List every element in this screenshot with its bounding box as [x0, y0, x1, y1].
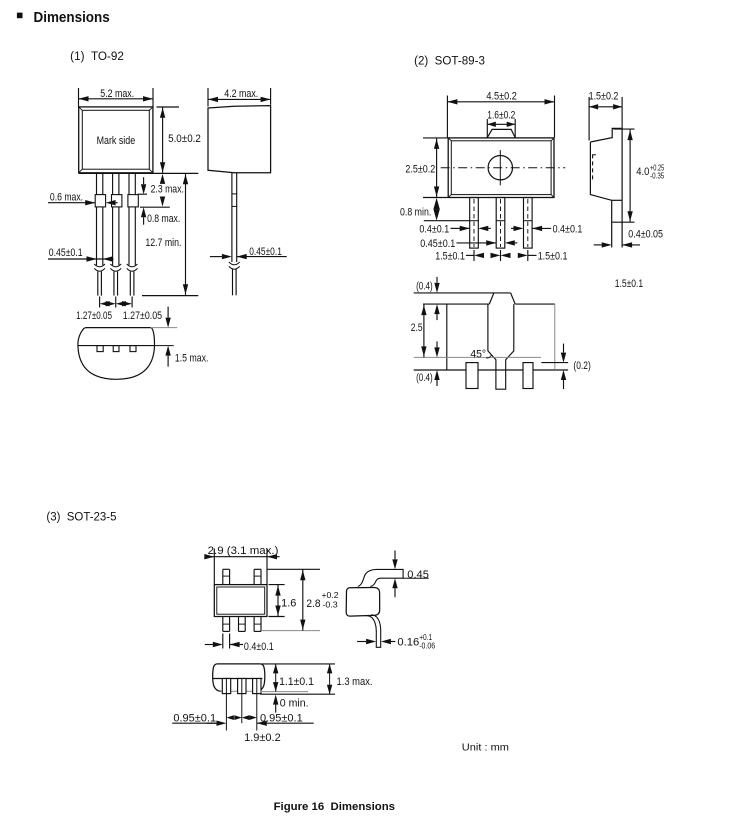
- svg-text:1.9±0.2: 1.9±0.2: [244, 732, 281, 744]
- SOT-23 front view parting line: [212, 678, 262, 680]
- svg-text:0.4±0.1: 0.4±0.1: [244, 641, 274, 653]
- SOT-23 front lead 1: [222, 679, 230, 694]
- collar top extension line: [138, 193, 147, 195]
- svg-text:0.8 min.: 0.8 min.: [400, 207, 431, 219]
- dimension 2.5±0.2 line: [436, 138, 438, 198]
- rear view tab sides: [488, 304, 514, 389]
- SOT-23 front body bottom extension gray: [260, 691, 308, 693]
- svg-text:-0.3: -0.3: [323, 600, 338, 609]
- SOT-23 front lead 3: [253, 679, 261, 694]
- TO-92 front view body outer outline: [79, 107, 153, 173]
- header bullet square: [17, 13, 23, 19]
- dimension 2.8 top extension line: [267, 568, 320, 570]
- SOT-23 pin 5 top left: [222, 569, 224, 584]
- SOT-23 front view body outline: [213, 664, 265, 691]
- TO-92 lead 3 lower: [128, 207, 130, 265]
- TO-92 bottom view chord line: [78, 345, 155, 347]
- svg-text:1.5±0.1: 1.5±0.1: [435, 251, 465, 263]
- dimension 5.0 line: [162, 107, 164, 173]
- svg-text:1.3 max.: 1.3 max.: [337, 676, 373, 688]
- SOT-23 front lead center extension lines: [225, 679, 227, 731]
- dimension 1.6 line sot23: [277, 585, 279, 617]
- rear view top line with tab top: [414, 292, 511, 294]
- dimension 0.45±0.1 side leader: [246, 256, 286, 258]
- dimension 4.0 bottom extension line: [612, 221, 634, 223]
- dimension 1.6 extension lines sot23: [269, 584, 285, 586]
- TO-92 front view corner chamfers: [79, 107, 83, 110]
- SOT-23 front top line extension: [262, 663, 336, 665]
- svg-text:1.5±0.1: 1.5±0.1: [615, 278, 644, 290]
- svg-text:2.8: 2.8: [306, 598, 320, 610]
- svg-text:Unit : mm: Unit : mm: [462, 742, 509, 754]
- rear view 2.5 dimension line: [423, 304, 425, 357]
- svg-text:12.7 min.: 12.7 min.: [145, 237, 181, 249]
- svg-text:1.6: 1.6: [281, 598, 296, 610]
- svg-text:0.45±0.1: 0.45±0.1: [249, 246, 282, 258]
- dimension 1.3 max. arrows: [327, 664, 332, 674]
- svg-text:0.6 max.: 0.6 max.: [50, 192, 83, 204]
- svg-text:(3) SOT-23-5: (3) SOT-23-5: [46, 512, 116, 524]
- rear view lead 3 cross-section: [523, 363, 533, 389]
- svg-text:2.5±0.2: 2.5±0.2: [405, 163, 435, 175]
- SOT-89 lead 2: [496, 198, 505, 249]
- collar bottom extension line: [140, 206, 170, 208]
- SOT-23 front view body bottom gray edge: [221, 690, 260, 692]
- dimension 1.5±0.1 line and arrows: [466, 254, 474, 256]
- dimension 5.0 extension line top right: [157, 106, 180, 108]
- TO-92 bottom view outline: [78, 328, 155, 380]
- svg-text:0.16: 0.16: [397, 636, 419, 648]
- TO-92 lead break marks: [94, 264, 105, 267]
- SOT-23 body inner rectangle: [217, 587, 265, 614]
- TO-92 lead 1 upper: [96, 173, 98, 194]
- SOT-89 lead ticks at kink: [470, 220, 479, 222]
- dimension 0.45±0.1 arrows sot89: [457, 242, 487, 244]
- rear view 0.2 extension lines: [541, 362, 568, 364]
- SOT-23 pin 1 bottom left: [222, 617, 224, 632]
- SOT-89 center hole circle: [488, 156, 512, 180]
- svg-text:(0.4): (0.4): [416, 281, 433, 293]
- side view dimension 1.5±0.2 line: [589, 106, 622, 108]
- rear view body top edge: [423, 303, 489, 305]
- dimension 0.45±0.1 arrows front: [48, 258, 114, 260]
- svg-text:1.1±0.1: 1.1±0.1: [279, 676, 314, 688]
- SOT-89 lead dashed centerlines: [473, 199, 475, 247]
- dimension 0.4±0.05 arrows: [602, 242, 612, 247]
- svg-text:1.27±0.05: 1.27±0.05: [123, 310, 162, 322]
- dimension 1.9±0.2 line: [172, 722, 216, 724]
- svg-text:-0.06: -0.06: [419, 642, 435, 651]
- dimension 4.2 max. line: [208, 98, 271, 100]
- TO-92 side view lead upper: [231, 173, 233, 262]
- dimension 0.4±0.1 left arrows: [451, 227, 460, 229]
- dimension 4.0 top extension line: [613, 128, 634, 130]
- svg-text:0.4±0.05: 0.4±0.05: [628, 229, 663, 241]
- rear view body right edge: [554, 304, 556, 369]
- dimension 1.6±0.2 line: [487, 123, 515, 125]
- lead pitch ticks sot89: [473, 250, 475, 261]
- svg-text:(0.2): (0.2): [573, 360, 590, 372]
- SOT-89 front dimension 4.5 extension lines: [446, 96, 448, 138]
- svg-text:1.5 max.: 1.5 max.: [175, 353, 209, 365]
- SOT-23 pin 2 bottom middle: [238, 617, 240, 632]
- dimension 1.6 extension lines: [486, 119, 488, 138]
- svg-text:(0.4): (0.4): [416, 372, 433, 384]
- rear view seating line: [414, 369, 568, 371]
- SOT-89 body inner rectangle: [451, 141, 551, 195]
- svg-text:(1) TO-92: (1) TO-92: [70, 51, 124, 63]
- svg-text:2.9 (3.1 max.): 2.9 (3.1 max.): [208, 545, 279, 557]
- dimension 4.0 line: [629, 129, 631, 222]
- dimension 2.3 max. arrows: [160, 174, 165, 184]
- svg-text:1.6±0.2: 1.6±0.2: [487, 110, 515, 122]
- svg-text:1.27±0.05: 1.27±0.05: [76, 310, 112, 322]
- SOT-23 pin 3 bottom right: [253, 617, 255, 632]
- dimension 0.4±0.1 right arrows: [532, 226, 542, 231]
- dimension 0.4±0.1 extension lines sot23: [222, 634, 224, 649]
- 0.8 min. lower extension line: [424, 220, 470, 222]
- rear view body left edge: [446, 304, 448, 370]
- dimension 1.27 arrows: [100, 301, 110, 306]
- TO-92 lead 1 lower: [96, 207, 98, 265]
- TO-92 seating line: [142, 295, 198, 297]
- side view dimension 1.5±0.2 extension lines: [588, 97, 590, 141]
- dimension 2.5 extension lines: [423, 137, 448, 139]
- TO-92 side view body: [208, 106, 271, 173]
- dimension 2.8 bottom extension line: [261, 630, 320, 632]
- svg-text:0.4±0.1: 0.4±0.1: [553, 223, 583, 235]
- SOT-23 body outer rectangle: [214, 585, 267, 617]
- rear view top 0.4 arrows: [434, 283, 439, 293]
- TO-92 front view body inner outline: [82, 110, 149, 169]
- dimension 0.16 arrows: [366, 639, 376, 644]
- svg-text:5.0±0.2: 5.0±0.2: [168, 133, 201, 145]
- bottom view top extension line: [151, 327, 178, 329]
- TO-92 lead tips: [97, 272, 99, 296]
- SOT-89 horizontal dash-dot centerline: [441, 167, 566, 169]
- SOT-23 pin 4 top right: [253, 569, 255, 584]
- TO-92 side view lead tip: [232, 269, 234, 296]
- SOT-89 body corner chamfers: [448, 138, 451, 141]
- SOT-23 side view top lead: [358, 569, 403, 586]
- svg-text:Figure 16 Dimensions: Figure 16 Dimensions: [274, 801, 395, 813]
- TO-92 lead 3 upper: [128, 173, 130, 194]
- TO-92 lead 2 collar: [112, 195, 122, 207]
- dimension 12.7 min. line: [185, 173, 187, 295]
- dimension 0 min. arrow: [273, 695, 278, 705]
- TO-92 side view lead break marks: [229, 262, 240, 265]
- SOT-89 side view body outline: [590, 128, 622, 247]
- svg-text:4.0: 4.0: [636, 166, 649, 178]
- dimension 4.5±0.2 line: [447, 101, 554, 103]
- rear view mid gray line: [414, 356, 541, 358]
- SOT-89 side view body bottom edge: [612, 199, 622, 201]
- svg-text:4.2 max.: 4.2 max.: [224, 88, 258, 100]
- TO-92 lead 2 lower: [112, 207, 114, 265]
- bottom view chord extension line: [155, 345, 174, 347]
- SOT-89 lead 3: [524, 198, 533, 249]
- svg-text:0.8 max.: 0.8 max.: [147, 213, 180, 225]
- dimension 0.45 arrows: [392, 559, 397, 569]
- TO-92 lead 1 collar: [95, 195, 105, 207]
- TO-92 lead 2 upper: [112, 173, 114, 194]
- svg-text:0.4±0.1: 0.4±0.1: [419, 223, 449, 235]
- dimension 0.8 max. arrows: [141, 184, 146, 194]
- TO-92 side view lead ticks: [232, 193, 237, 195]
- svg-text:(2) SOT-89-3: (2) SOT-89-3: [414, 55, 485, 67]
- svg-text:0.45±0.1: 0.45±0.1: [49, 247, 83, 259]
- dimension 1.5 max. arrows bottom view: [165, 318, 170, 328]
- dimension 0.4±0.1 arrows sot23: [213, 642, 223, 647]
- dimension 2.8 line: [302, 569, 304, 630]
- svg-text:2.5: 2.5: [411, 322, 423, 334]
- SOT-23 top view dimension 2.9 line: [207, 556, 280, 558]
- svg-text:Mark side: Mark side: [97, 135, 136, 147]
- SOT-23 front lead 2: [238, 679, 246, 694]
- svg-text:45°: 45°: [470, 349, 486, 361]
- SOT-23 top view extension lines: [213, 549, 215, 585]
- rear view 0.2 arrows: [561, 353, 566, 363]
- SOT-89 body outer rectangle: [448, 138, 554, 198]
- dimension 1.1±0.1 arrows: [273, 664, 278, 674]
- dimension 0.8 min. arrows: [433, 198, 439, 210]
- TO-92 base line extended: [79, 172, 199, 174]
- SOT-89 side view marking dashes: [592, 154, 594, 180]
- TO-92 lead 3 collar: [128, 195, 138, 207]
- rear view bottom 0.4 arrows: [434, 347, 439, 357]
- SOT-89 tab on body top: [487, 129, 515, 137]
- SOT-23 side view top lead extension: [403, 577, 429, 579]
- svg-text:-0.35: -0.35: [650, 171, 665, 180]
- rear view tab right slant: [511, 293, 516, 304]
- SOT-89 lead 1: [470, 198, 479, 249]
- svg-text:5.2 max.: 5.2 max.: [100, 88, 134, 100]
- rear view tab left slant: [489, 293, 494, 304]
- svg-text:1.5±0.1: 1.5±0.1: [538, 251, 568, 263]
- SOT-23 side view bottom lead: [366, 615, 381, 647]
- dimension 5.2 max. extension lines: [78, 88, 80, 107]
- svg-text:0.45: 0.45: [407, 569, 429, 581]
- svg-text:0.45±0.1: 0.45±0.1: [420, 238, 455, 250]
- SOT-23 front seating line: [260, 693, 335, 695]
- dimension 5.2 max. line: [79, 98, 154, 100]
- SOT-23 side view body: [346, 587, 380, 616]
- dimension 0.95 arrows: [226, 715, 234, 720]
- TO-92 bottom view pin squares: [97, 346, 103, 352]
- rear view lead 1 cross-section: [466, 363, 478, 389]
- SOT-89 vertical center mark: [499, 150, 501, 185]
- lead pitch extension lines: [99, 297, 101, 308]
- TO-92 side view extension lines: [207, 88, 209, 107]
- 45 degree leader arc: [486, 355, 491, 358]
- svg-text:Dimensions: Dimensions: [34, 10, 110, 26]
- svg-text:1.5±0.2: 1.5±0.2: [589, 91, 619, 103]
- svg-text:+0.2: +0.2: [322, 591, 339, 600]
- svg-text:2.3 max.: 2.3 max.: [151, 183, 184, 195]
- dimension 0.6 max. leader: [48, 202, 85, 204]
- svg-text:4.5±0.2: 4.5±0.2: [486, 91, 517, 103]
- svg-text:0 min.: 0 min.: [280, 698, 309, 710]
